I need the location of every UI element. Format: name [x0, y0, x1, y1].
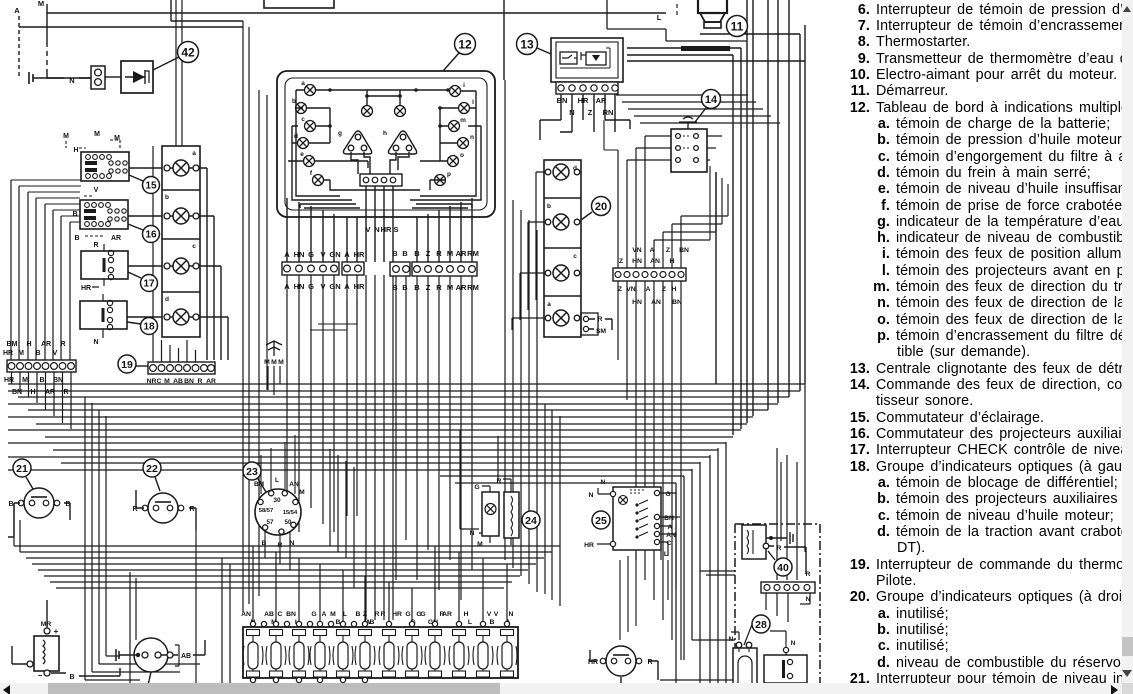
svg-text:N: N	[806, 596, 811, 603]
svg-text:R: R	[375, 611, 380, 618]
lamp 12c	[301, 116, 315, 132]
label 18	[127, 318, 158, 335]
legend text column	[845, 0, 1122, 683]
svg-text:R: R	[198, 378, 203, 385]
svg-text:G: G	[308, 282, 314, 291]
svg-text:57: 57	[267, 519, 274, 526]
svg-text:H: H	[26, 341, 31, 348]
svg-text:o: o	[460, 152, 464, 159]
svg-text:A: A	[344, 250, 350, 259]
wire bundle left stubs to switches	[11, 180, 81, 222]
svg-text:RM: RM	[467, 249, 479, 258]
wires strip20 down	[618, 281, 681, 660]
svg-text:NRC: NRC	[147, 378, 162, 385]
wire 12 internal top rail	[316, 90, 448, 105]
svg-text:N: N	[791, 640, 796, 647]
svg-text:−: −	[38, 671, 43, 680]
svg-text:H: H	[672, 286, 677, 293]
lamp 12a	[301, 80, 315, 96]
terminal strip 40	[761, 582, 815, 593]
svg-text:S: S	[393, 225, 398, 234]
terminal strip A-GN	[282, 262, 339, 275]
label 19	[118, 355, 148, 373]
svg-text:R: R	[806, 571, 811, 578]
wire bundle center-right verticals	[505, 80, 537, 592]
label L (top)	[657, 4, 677, 22]
wire bundle 12 exits left	[287, 198, 334, 262]
svg-text:N: N	[69, 76, 74, 85]
aux switch 16	[80, 200, 128, 229]
ground for 40	[766, 532, 793, 544]
svg-text:N: N	[509, 611, 514, 618]
svg-text:AR: AR	[45, 389, 55, 396]
wire right horizontals top	[627, 34, 805, 61]
svg-text:G: G	[474, 484, 479, 491]
labels V N HR S	[365, 225, 398, 234]
svg-text:M: M	[18, 350, 24, 357]
svg-text:VN: VN	[632, 247, 642, 254]
dashboard 12 (tableau de bord)	[277, 71, 495, 217]
wire bundle left verticals (upper)	[11, 180, 70, 360]
terminal strip A HR	[342, 262, 364, 275]
svg-text:B: B	[72, 211, 77, 218]
svg-text:C: C	[667, 540, 672, 547]
svg-text:M: M	[63, 133, 69, 140]
wires into cab from band	[777, 384, 805, 580]
connector R SM	[581, 313, 612, 335]
relay 24	[482, 492, 519, 538]
svg-text:13: 13	[520, 37, 534, 51]
svg-text:23: 23	[246, 466, 258, 478]
wire M down to connector	[46, 4, 48, 42]
thermostart relay 40	[742, 525, 773, 559]
wire bundle middle band	[8, 384, 805, 483]
turn signal switch 14	[671, 117, 707, 172]
wire 12 gauges down	[351, 152, 409, 174]
svg-text:HR: HR	[588, 659, 598, 666]
svg-text:M: M	[447, 249, 453, 258]
svg-text:N: N	[290, 540, 295, 547]
svg-text:B: B	[262, 540, 267, 547]
fuse box top terminals	[250, 621, 509, 626]
svg-text:M: M	[22, 377, 28, 384]
svg-text:A: A	[284, 282, 290, 291]
svg-text:B: B	[35, 350, 40, 357]
wire 12 lamp e loop	[288, 161, 420, 190]
gauge g (temperature)	[338, 130, 372, 154]
label 13	[517, 34, 552, 55]
svg-text:HR: HR	[354, 250, 365, 259]
svg-text:B: B	[356, 611, 361, 618]
fuse box labels	[241, 611, 513, 626]
svg-text:N: N	[569, 108, 574, 117]
svg-text:M: M	[94, 131, 100, 138]
wires strip20 left risers	[604, 120, 618, 150]
svg-text:AB: AB	[264, 611, 274, 618]
label 25	[592, 511, 610, 529]
labels A HN G V GN (above)	[284, 250, 340, 259]
lamp 12n	[458, 134, 475, 149]
svg-text:BN: BN	[286, 611, 296, 618]
labels strip20 above	[619, 247, 689, 265]
svg-text:H: H	[30, 389, 35, 396]
label A (dashed wire)	[14, 6, 20, 78]
svg-text:A: A	[284, 250, 290, 259]
labels around 17	[81, 242, 104, 292]
svg-text:HR: HR	[578, 96, 589, 105]
label R 40	[769, 545, 806, 574]
wires from 14	[627, 136, 722, 268]
labels strip20 below	[618, 286, 682, 306]
svg-text:R: R	[777, 545, 782, 552]
svg-text:M: M	[477, 541, 483, 548]
switch near 25 (bottom)	[588, 646, 653, 676]
svg-text:25: 25	[595, 515, 607, 527]
horn symbol	[264, 341, 284, 366]
svg-text:18: 18	[143, 322, 155, 333]
svg-text:HN: HN	[294, 250, 305, 259]
svg-text:GN: GN	[329, 282, 340, 291]
svg-text:SM: SM	[596, 328, 607, 335]
svg-text:N: N	[601, 479, 606, 486]
wire 12 inner loop right	[410, 91, 481, 208]
svg-text:RM: RM	[467, 283, 479, 292]
diode box 42	[121, 61, 153, 93]
svg-text:N: N	[93, 339, 98, 346]
terminal strip left (8)	[7, 360, 76, 372]
lamp 12 center-left	[362, 106, 373, 117]
svg-text:11: 11	[731, 19, 744, 33]
wires switch 21	[8, 503, 70, 537]
wires switch bottom	[590, 650, 658, 694]
svg-text:B: B	[402, 283, 408, 292]
terminal strip B B	[390, 262, 410, 276]
label 15	[129, 175, 160, 194]
svg-text:M: M	[299, 489, 304, 496]
wires 15-18 to lamps	[127, 168, 164, 317]
svg-text:BN: BN	[672, 299, 682, 306]
svg-text:BN: BN	[184, 378, 194, 385]
svg-text:B: B	[414, 283, 420, 292]
svg-text:15: 15	[145, 181, 157, 192]
svg-text:B: B	[65, 501, 70, 508]
svg-text:16: 16	[145, 230, 157, 241]
svg-text:R: R	[436, 283, 442, 292]
svg-text:G: G	[311, 611, 316, 618]
wires from 13 down	[561, 94, 615, 132]
svg-text:L: L	[275, 477, 279, 484]
svg-text:AB: AB	[173, 378, 183, 385]
labels around 15	[63, 131, 120, 154]
svg-text:AR: AR	[111, 235, 121, 242]
wire bundle below 22	[130, 530, 230, 694]
light switch 15	[81, 152, 129, 181]
svg-text:B: B	[392, 249, 398, 258]
wires CHECK 25	[597, 488, 680, 560]
svg-text:M: M	[278, 359, 284, 366]
svg-text:p: p	[447, 171, 451, 178]
wire bundle 12 exits right	[417, 198, 472, 262]
switch 18	[80, 300, 127, 329]
wires right of left lamp strip	[199, 168, 228, 360]
lamp 12o	[448, 152, 465, 167]
svg-text:i: i	[463, 82, 465, 89]
wire bundle starter right	[747, 0, 789, 423]
svg-text:a: a	[192, 150, 196, 157]
wire bundle left-bottom turns	[14, 503, 200, 680]
box 28 right	[764, 640, 807, 683]
wires left of group 20	[512, 172, 545, 330]
label 21	[13, 459, 33, 489]
svg-text:22: 22	[146, 463, 158, 475]
wires top-right horizontals	[616, 95, 780, 123]
svg-text:AN: AN	[666, 532, 676, 539]
svg-text:R: R	[189, 506, 194, 513]
CHECK switch 17	[81, 250, 128, 279]
svg-text:58/57: 58/57	[259, 508, 274, 514]
flasher unit 13	[551, 38, 623, 82]
svg-text:Z: Z	[666, 247, 670, 254]
label N (top-left wire)	[40, 76, 91, 85]
wires strip20 up	[618, 150, 681, 268]
wires strip 40	[766, 592, 810, 622]
svg-text:A: A	[646, 286, 651, 293]
svg-text:Z: Z	[619, 258, 623, 265]
svg-text:m: m	[460, 117, 466, 124]
junction dots 12	[328, 88, 450, 128]
labels around 25	[584, 479, 676, 558]
vertical scrollbar	[1122, 0, 1133, 683]
wires ignition 23	[261, 435, 295, 542]
switch 21	[8, 488, 70, 518]
svg-text:V: V	[320, 250, 325, 259]
wires above strip19	[153, 146, 196, 362]
svg-text:A: A	[14, 6, 20, 15]
svg-text:G: G	[405, 611, 410, 618]
svg-text:40: 40	[777, 562, 789, 574]
wire nested loops mid	[330, 449, 354, 588]
svg-text:R: R	[132, 506, 137, 513]
labels B B	[392, 249, 408, 292]
svg-text:h: h	[383, 130, 387, 137]
indicator group left (a,b,c,d)	[162, 146, 200, 337]
svg-text:Z: Z	[662, 286, 666, 293]
lamp left group a	[164, 160, 199, 176]
svg-text:g: g	[338, 130, 342, 137]
svg-text:V: V	[494, 611, 499, 618]
svg-text:RN: RN	[603, 108, 614, 117]
svg-text:BN: BN	[557, 96, 568, 105]
svg-text:14: 14	[705, 94, 718, 106]
svg-text:Z: Z	[426, 249, 431, 258]
svg-text:BN: BN	[53, 377, 63, 384]
svg-text:HR: HR	[4, 377, 14, 384]
svg-text:A: A	[322, 611, 327, 618]
svg-text:V: V	[53, 350, 58, 357]
label 20	[581, 197, 611, 221]
lamp 12d	[294, 133, 308, 149]
svg-text:HR: HR	[354, 282, 365, 291]
svg-text:B: B	[39, 377, 44, 384]
wire verticals below 25	[620, 524, 676, 640]
svg-text:HR: HR	[392, 611, 402, 618]
box at top centre (cut off)	[264, 0, 334, 8]
wire fuse feeders	[253, 546, 507, 624]
label 16	[128, 224, 160, 243]
svg-text:17: 17	[143, 279, 155, 290]
svg-text:G: G	[665, 491, 670, 498]
lamp 12 center-right	[395, 106, 406, 117]
svg-text:Z: Z	[426, 283, 431, 292]
labels B Z R M AR RM (below)	[414, 283, 479, 292]
terminal strip of 13	[556, 82, 618, 94]
svg-text:GN: GN	[329, 250, 340, 259]
wires strip20 up turns	[654, 166, 728, 240]
svg-text:M: M	[164, 378, 170, 385]
wire bundle mid-right verticals2	[460, 404, 560, 606]
svg-text:30: 30	[273, 497, 281, 504]
svg-text:HR: HR	[81, 285, 91, 292]
svg-text:d: d	[294, 133, 298, 140]
glow plug 28 left	[729, 636, 757, 694]
label M (top left)	[38, 0, 44, 8]
svg-text:N: N	[589, 492, 594, 499]
svg-text:L: L	[468, 619, 472, 626]
svg-text:A: A	[668, 524, 673, 531]
wires bottom-right horizontals	[660, 571, 735, 680]
wire bundle 12 exits mid	[347, 186, 393, 262]
svg-text:24: 24	[525, 515, 537, 527]
svg-text:BM: BM	[7, 341, 18, 348]
wire band right downs	[676, 442, 726, 694]
svg-text:R: R	[60, 341, 65, 348]
svg-text:M: M	[330, 611, 336, 618]
labels around 16	[72, 187, 121, 242]
svg-text:Z: Z	[363, 611, 367, 618]
svg-text:R: R	[497, 478, 502, 485]
wire 12 internal left chain	[307, 108, 330, 143]
svg-text:V: V	[365, 225, 370, 234]
lamp 12p	[435, 171, 452, 186]
svg-text:AR: AR	[206, 378, 216, 385]
labels B Z R M AR RM (above)	[414, 249, 479, 258]
svg-text:a: a	[301, 80, 305, 87]
labels left strip below	[4, 377, 69, 396]
svg-text:b: b	[547, 203, 551, 210]
wire 12 inner loop left	[292, 90, 360, 208]
label 24	[522, 511, 540, 529]
lamp left group d	[164, 309, 199, 325]
label 22	[143, 459, 161, 491]
labels around 23	[254, 477, 305, 549]
wires 13 to right bundle	[540, 120, 630, 140]
svg-text:A: A	[344, 282, 350, 291]
svg-text:A: A	[650, 247, 655, 254]
cab border (dash-dot)	[735, 524, 820, 694]
wire top center corners	[607, 0, 747, 41]
svg-text:AR: AR	[442, 611, 452, 618]
svg-text:HN: HN	[632, 258, 642, 265]
svg-text:21: 21	[16, 463, 28, 475]
svg-text:c: c	[573, 253, 577, 260]
wires switch 22	[136, 490, 196, 530]
svg-text:N: N	[374, 225, 379, 234]
svg-text:HN: HN	[632, 299, 642, 306]
svg-text:BN: BN	[679, 247, 689, 254]
svg-text:l: l	[472, 99, 474, 106]
label 12	[443, 34, 476, 72]
svg-text:n: n	[470, 134, 474, 141]
lamp 12e	[300, 151, 314, 167]
wire bundle right outer	[716, 25, 805, 435]
svg-text:AR: AR	[41, 341, 51, 348]
labels strip 40	[806, 571, 811, 603]
lamp right group 3	[545, 265, 580, 281]
svg-text:L: L	[664, 551, 668, 558]
svg-text:M: M	[447, 283, 453, 292]
svg-text:AN: AN	[289, 481, 299, 488]
svg-text:a: a	[547, 301, 551, 308]
wire 12 lamp o loop	[420, 161, 447, 190]
wire 12 internal right chain	[440, 108, 458, 161]
label 28	[752, 615, 770, 633]
svg-text:R: R	[63, 389, 68, 396]
svg-text:f: f	[310, 170, 313, 177]
svg-text:BN: BN	[664, 515, 674, 522]
svg-text:B: B	[414, 249, 420, 258]
labels strip19 below	[147, 378, 216, 385]
svg-text:R: R	[436, 249, 442, 258]
terminal strip B-RM	[412, 262, 477, 276]
wires horn down	[268, 366, 280, 395]
labels around 24	[470, 478, 502, 548]
svg-text:AN: AN	[650, 258, 660, 265]
svg-text:MR: MR	[41, 621, 52, 628]
svg-text:19: 19	[121, 359, 133, 371]
svg-text:c: c	[192, 243, 196, 250]
svg-text:HR: HR	[381, 225, 392, 234]
svg-text:c: c	[301, 116, 305, 123]
svg-text:AR: AR	[596, 96, 607, 105]
terminal strip 12 center	[360, 174, 402, 186]
svg-text:AR: AR	[456, 283, 467, 292]
svg-text:BN: BN	[12, 389, 22, 396]
ground for AB switch	[116, 649, 121, 661]
ignition switch 23	[255, 489, 301, 535]
svg-text:R: R	[598, 316, 603, 323]
label 23	[243, 462, 266, 492]
wire bundle lower band	[14, 546, 560, 588]
wires relay 24	[479, 479, 511, 545]
terminal strip 20 (8)	[613, 268, 686, 281]
svg-text:N: N	[470, 530, 475, 537]
svg-text:G: G	[420, 611, 425, 618]
wires under dashboard gap	[310, 300, 357, 330]
svg-text:AR: AR	[456, 249, 467, 258]
CHECK unit 25	[610, 487, 661, 550]
wire band left drops	[12, 372, 72, 429]
svg-text:V: V	[487, 611, 492, 618]
svg-text:d: d	[165, 296, 169, 303]
svg-text:B: B	[370, 619, 375, 626]
lamp right group 1	[545, 164, 580, 180]
lamp 12i	[450, 82, 466, 97]
svg-text:R: R	[278, 542, 283, 549]
svg-text:M: M	[38, 0, 44, 8]
lamp 12b	[292, 98, 306, 114]
svg-text:AB: AB	[181, 653, 191, 660]
svg-text:Z: Z	[588, 108, 593, 117]
